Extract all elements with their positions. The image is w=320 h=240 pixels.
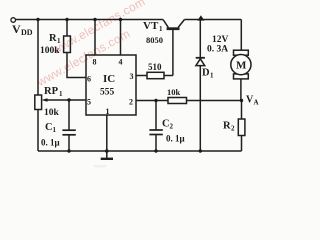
wire base lead to 510 xyxy=(172,30,174,76)
resistor 510 xyxy=(147,72,164,78)
svg-text:V: V xyxy=(12,22,21,36)
wire top rail right segment xyxy=(185,19,242,21)
node VA junction dot xyxy=(240,99,243,102)
motor M body xyxy=(231,55,251,75)
svg-text:12V: 12V xyxy=(212,35,229,45)
wire C2 bottom lead xyxy=(155,135,157,152)
svg-text:1: 1 xyxy=(210,72,214,80)
junction dot wiper/C1 xyxy=(67,98,70,101)
junction dot rail x120.5 xyxy=(119,18,122,21)
wire pin 8 lead xyxy=(94,20,96,56)
junction dot rail x38 xyxy=(36,18,39,21)
svg-text:2: 2 xyxy=(170,123,174,131)
svg-text:1: 1 xyxy=(53,126,57,134)
capacitor C1 plates xyxy=(62,129,75,131)
ground pin1 lead xyxy=(106,115,108,159)
junction dot rail ground xyxy=(105,149,109,153)
svg-text:M: M xyxy=(236,60,247,72)
svg-text:1: 1 xyxy=(59,90,63,98)
svg-text:RP: RP xyxy=(44,86,59,97)
svg-text:VT: VT xyxy=(143,20,159,32)
svg-text:555: 555 xyxy=(100,88,115,98)
wire RP1 bottom lead xyxy=(37,110,39,152)
diode D1 xyxy=(196,57,205,59)
svg-text:D: D xyxy=(202,68,210,79)
wire motor bottom lead xyxy=(240,79,242,101)
svg-text:C: C xyxy=(162,119,170,130)
svg-text:2: 2 xyxy=(129,98,133,107)
motor M brush caps xyxy=(234,50,249,55)
wire diode branch lower xyxy=(199,66,201,151)
svg-text:8: 8 xyxy=(93,58,97,67)
capacitor C2 plates xyxy=(149,129,162,131)
wire pin 2 to VA xyxy=(136,100,242,102)
svg-text:100k: 100k xyxy=(40,46,60,56)
junction dot rail x95 xyxy=(93,18,96,21)
wire motor top lead xyxy=(240,20,242,51)
svg-text:4: 4 xyxy=(119,58,123,67)
wire RP1 branch top xyxy=(37,20,39,96)
junction dot pin2/C2 xyxy=(154,99,157,102)
wire bottom rail xyxy=(38,150,242,152)
ground bar xyxy=(101,158,113,160)
svg-text:A: A xyxy=(254,99,259,107)
wire C2 top lead xyxy=(155,101,157,131)
wire pin 4 lead xyxy=(120,20,122,56)
wire R2 top lead xyxy=(241,101,243,120)
wiper arrowhead RP1 xyxy=(42,98,48,102)
svg-text:3: 3 xyxy=(130,72,134,81)
wire R1 branch top xyxy=(66,20,68,37)
wire pin 3 xyxy=(136,75,147,77)
svg-text:0. 1μ: 0. 1μ xyxy=(166,134,185,144)
potentiometer RP1 xyxy=(35,95,42,110)
junction dot rail x67 xyxy=(65,18,68,21)
svg-text:0. 1μ: 0. 1μ xyxy=(41,138,60,148)
op-amp U1 IC 555 box xyxy=(86,55,136,115)
svg-text:IC: IC xyxy=(103,73,115,85)
svg-text:5: 5 xyxy=(87,98,91,107)
svg-text:2: 2 xyxy=(231,125,235,133)
resistor 10k horizontal xyxy=(168,98,187,104)
wire diode branch upper xyxy=(199,21,201,58)
svg-text:R: R xyxy=(223,121,231,132)
junction dot rail diode xyxy=(199,149,202,152)
wire wiper to pin 5 xyxy=(45,99,87,101)
svg-text:C: C xyxy=(45,122,53,133)
wire top rail left segment xyxy=(16,19,164,21)
junction dot rail C1 xyxy=(67,149,70,152)
transistor VT1 xyxy=(163,20,168,28)
resistor R2 xyxy=(238,119,245,136)
node VDD terminal xyxy=(11,18,16,23)
svg-text:0. 3A: 0. 3A xyxy=(207,45,228,55)
svg-text:10k: 10k xyxy=(44,108,60,118)
svg-text:8050: 8050 xyxy=(146,35,163,45)
junction arrow at diode branch on rail xyxy=(197,15,204,20)
svg-text:1: 1 xyxy=(57,37,61,45)
svg-text:510: 510 xyxy=(148,62,162,72)
svg-text:R: R xyxy=(49,33,57,44)
svg-text:1: 1 xyxy=(106,107,110,116)
wire R2 bottom lead xyxy=(241,136,243,152)
wire C1 bottom lead xyxy=(68,135,70,151)
svg-text:6: 6 xyxy=(87,75,91,84)
wire 510 to base xyxy=(164,75,173,77)
svg-text:DD: DD xyxy=(21,28,33,37)
junction dot rail C2 xyxy=(154,149,157,152)
resistor R1 100k xyxy=(64,36,71,53)
paper background xyxy=(0,0,270,178)
wire C1 top lead xyxy=(68,100,70,130)
svg-text:1: 1 xyxy=(159,25,163,33)
scan artifact faint smudge xyxy=(94,165,106,168)
wire R1 bottom to pin 6 xyxy=(67,53,86,78)
svg-text:10k: 10k xyxy=(167,87,181,97)
